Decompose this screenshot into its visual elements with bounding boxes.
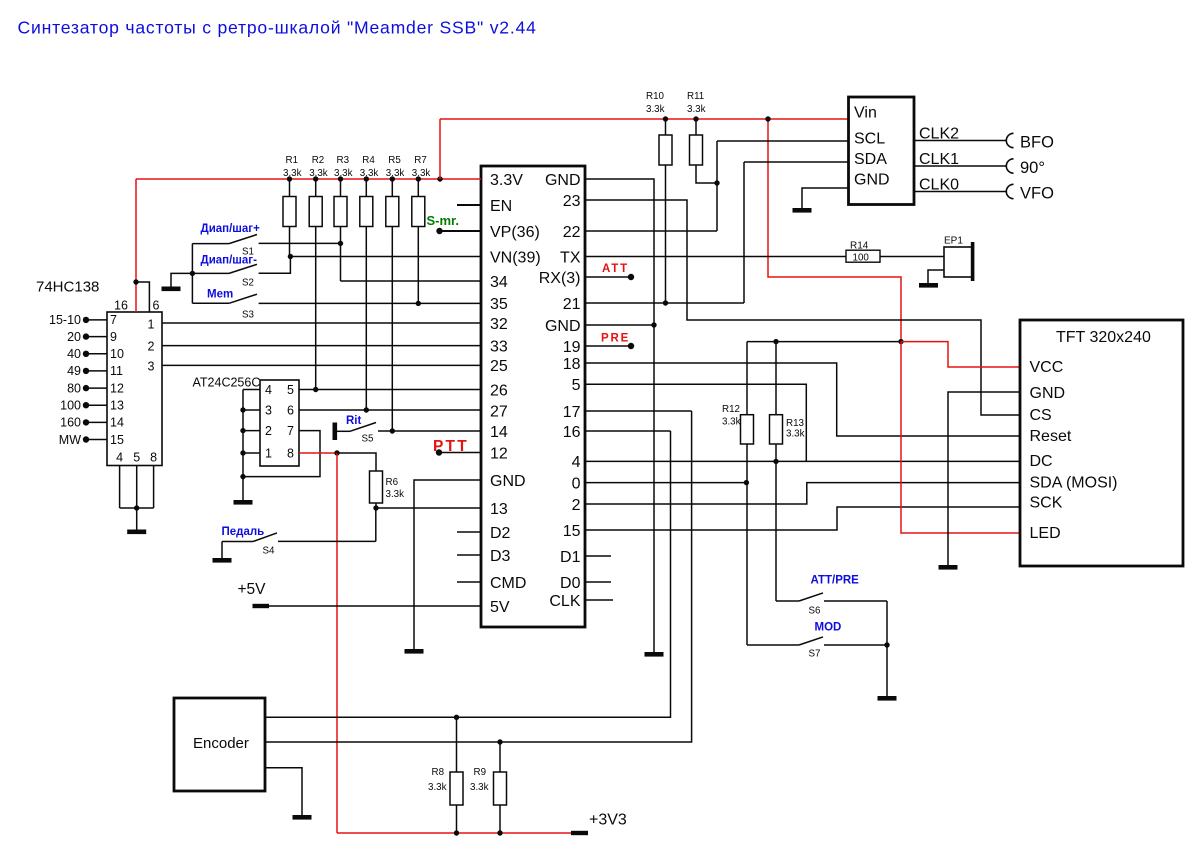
svg-text:1: 1 (265, 446, 272, 460)
svg-text:12: 12 (110, 381, 124, 395)
svg-text:GND: GND (490, 473, 526, 490)
wire R3 lead down through S1 node to 34 row (340, 227, 342, 282)
svg-text:SCK: SCK (1030, 495, 1063, 512)
wire D0 stub (585, 581, 611, 583)
svg-text:4: 4 (265, 383, 272, 397)
wire 74HC138 pin3 to U1 pin25 (162, 364, 481, 366)
wire CLK stub (585, 599, 613, 601)
svg-text:S6: S6 (809, 606, 822, 617)
wire red 3.3V horizontal to U1 (136, 178, 481, 180)
svg-text:2: 2 (265, 424, 272, 438)
svg-text:21: 21 (563, 296, 581, 313)
svg-text:18: 18 (563, 356, 581, 373)
svg-text:90°: 90° (1020, 159, 1045, 177)
svg-text:CLK2: CLK2 (919, 126, 959, 143)
svg-text:80: 80 (67, 381, 81, 395)
node pin6 row R4 junction (364, 407, 369, 412)
wire D3 stub (457, 554, 481, 556)
wire red to TFT VCC (901, 342, 1020, 367)
svg-text:8: 8 (287, 446, 294, 460)
svg-text:R5: R5 (388, 155, 401, 166)
svg-text:Reset: Reset (1030, 428, 1072, 445)
svg-text:R11: R11 (687, 91, 704, 102)
74HC138 bottom pins wires to ground (119, 466, 121, 509)
node red junction eeprom pin8 (334, 450, 339, 455)
svg-text:R3: R3 (337, 155, 350, 166)
svg-text:CLK1: CLK1 (919, 151, 959, 168)
svg-text:3.3k: 3.3k (334, 168, 353, 179)
node R8 bottom junction (454, 830, 459, 835)
svg-text:14: 14 (490, 424, 508, 441)
svg-text:23: 23 (563, 193, 581, 210)
wire U1 pin22 SCL net (585, 230, 717, 232)
node S1 to R3 junction (338, 241, 343, 246)
node 74HC138 gnd junction (134, 505, 139, 510)
wire eeprom pin6 row to U1 pin27 (299, 409, 481, 411)
svg-text:CS: CS (1030, 407, 1052, 424)
svg-text:2: 2 (148, 339, 155, 353)
svg-text:3: 3 (148, 359, 155, 373)
node GND net junction (651, 322, 656, 327)
wire U1 pin0 row to S7 net (585, 482, 746, 484)
svg-text:ATT/PRE: ATT/PRE (811, 575, 860, 587)
wire CMD stub (457, 581, 481, 583)
wire +5V to U1 5V pin (269, 605, 481, 607)
svg-text:S-mr.: S-mr. (427, 213, 460, 228)
svg-text:33: 33 (490, 338, 508, 355)
ground under AT24C256C (234, 500, 253, 505)
svg-text:22: 22 (563, 224, 581, 241)
svg-text:TFT 320x240: TFT 320x240 (1056, 329, 1151, 346)
node SCL R11 junction (714, 180, 719, 185)
svg-text:D1: D1 (560, 549, 581, 566)
svg-text:GND: GND (545, 318, 581, 335)
svg-text:3: 3 (265, 403, 272, 417)
svg-text:8: 8 (150, 451, 157, 465)
svg-text:RX(3): RX(3) (539, 270, 581, 287)
IC U2 74HC138 box (107, 312, 162, 466)
wire R1 lead down to VN row (289, 227, 291, 257)
svg-text:SDA (MOSI): SDA (MOSI) (1030, 475, 1118, 492)
svg-text:3.3k: 3.3k (386, 489, 405, 500)
wire 74HC138 to ground (136, 508, 138, 530)
wire D1 stub (585, 555, 611, 557)
node eeprom pin1 junction (240, 450, 245, 455)
wire U1 pin15 to TFT SCK (585, 507, 1020, 530)
svg-text:3.3k: 3.3k (687, 104, 706, 115)
svg-text:+3V3: +3V3 (589, 812, 627, 829)
wire red vertical to 74HC138 pin16 (135, 179, 137, 312)
wire eeprom pin8 node to R6 (337, 453, 376, 471)
svg-text:R9: R9 (474, 767, 487, 778)
wires AT24C256C left pins to ground rail (243, 389, 260, 391)
ground below U1 left (405, 649, 424, 654)
svg-text:3.3k: 3.3k (646, 104, 665, 115)
svg-text:D0: D0 (560, 575, 581, 592)
svg-text:MW: MW (59, 433, 81, 447)
svg-text:EN: EN (490, 198, 512, 215)
wire U1 pin23 to TFT CS (585, 200, 1020, 415)
svg-text:GND: GND (854, 172, 890, 189)
ground for S6/S7 (878, 696, 897, 701)
ground for encoder (293, 815, 312, 820)
wire EP1 to ground (928, 270, 944, 283)
svg-text:19: 19 (563, 339, 581, 356)
wire VN(39) row to U1 (290, 256, 481, 258)
node R9 bottom junction (497, 830, 502, 835)
svg-text:S4: S4 (263, 546, 276, 557)
svg-text:Rit: Rit (346, 415, 362, 427)
svg-text:D3: D3 (490, 548, 511, 565)
node S3 row to R7 junction (416, 301, 421, 306)
Encoder box (174, 698, 265, 791)
node pin0 row R12/S7 junction (744, 480, 749, 485)
wire encoder common to ground (265, 768, 302, 815)
wire S6 down to S7 node (886, 601, 888, 645)
svg-text:26: 26 (490, 382, 508, 399)
ground under 74HC138 (127, 530, 146, 535)
wire CLK1 to 90 (914, 165, 1007, 167)
svg-text:R13: R13 (786, 418, 805, 429)
wire U1 pin13 row (376, 507, 481, 509)
svg-text:5: 5 (572, 377, 581, 394)
svg-text:5V: 5V (490, 599, 510, 616)
wire U4 GND to ground (802, 188, 849, 208)
ground for EP1 (919, 283, 938, 288)
svg-text:15: 15 (110, 433, 124, 447)
ground for S4 (213, 558, 232, 563)
svg-text:S7: S7 (809, 649, 821, 660)
wire R14 to EP1 (880, 256, 944, 258)
svg-text:GND: GND (1030, 385, 1066, 402)
svg-text:16: 16 (563, 424, 581, 441)
svg-text:R10: R10 (646, 91, 665, 102)
wire R5 lead down to S5 row (391, 227, 393, 432)
node red junction R10 (663, 116, 668, 121)
svg-text:4: 4 (116, 451, 123, 465)
wire R2 lead down to eeprom pin5 row (315, 227, 317, 390)
svg-text:Диап/шаг-: Диап/шаг- (201, 255, 258, 267)
svg-text:GND: GND (545, 172, 581, 189)
svg-text:Педаль: Педаль (222, 526, 265, 538)
svg-text:CLK0: CLK0 (919, 177, 959, 194)
node red 3V3 junction (898, 339, 903, 344)
svg-text:5: 5 (287, 383, 294, 397)
svg-text:32: 32 (490, 316, 508, 333)
wire red vertical 3V3 rail (336, 453, 338, 833)
svg-text:40: 40 (67, 347, 81, 361)
svg-text:S2: S2 (242, 278, 254, 289)
wire switch common vertical (191, 244, 193, 304)
wire 74HC138 pin1 to U1 pin32 (162, 322, 481, 324)
svg-text:R12: R12 (722, 404, 740, 415)
svg-text:3.3k: 3.3k (283, 168, 302, 179)
node eeprom pin2 junction (240, 428, 245, 433)
wire R4 lead down to eeprom pin6 row (365, 227, 367, 411)
wire U1 pin21 SDA net (585, 302, 744, 304)
ground below GND net (645, 652, 664, 657)
node S6/S7 common junction (884, 642, 889, 647)
wire S7 node to ground (886, 645, 888, 696)
svg-text:LED: LED (1030, 525, 1061, 542)
svg-text:13: 13 (110, 399, 124, 413)
svg-text:SCL: SCL (854, 131, 885, 148)
wire U1 pin5 jog to DC row (585, 384, 806, 461)
svg-text:160: 160 (60, 416, 81, 430)
+3V3 supply terminal (571, 831, 588, 835)
wire U1 GND right net (585, 179, 654, 652)
svg-text:R1: R1 (286, 155, 299, 166)
svg-text:Диап/шаг+: Диап/шаг+ (201, 223, 261, 235)
IC U3 AT24C256C box (260, 380, 299, 466)
wire R12/R13 tops to red 3V3 (747, 341, 901, 343)
node switch common junction (190, 271, 195, 276)
svg-text:S5: S5 (362, 434, 375, 445)
svg-text:3.3k: 3.3k (786, 429, 805, 440)
svg-text:15: 15 (563, 523, 581, 540)
wire 74HC138 pin6 jog to 3.3V (136, 282, 149, 312)
svg-text:6: 6 (287, 403, 294, 417)
svg-text:16: 16 (114, 299, 128, 313)
svg-text:5: 5 (133, 451, 140, 465)
svg-text:3.3k: 3.3k (386, 168, 405, 179)
svg-text:10: 10 (110, 347, 124, 361)
connector VFO (1006, 184, 1013, 198)
svg-text:ATT: ATT (602, 263, 629, 275)
node S5 row R5 junction (390, 428, 395, 433)
wire U1 TX to R14 (585, 256, 846, 258)
node red 3.3V corner junction (437, 176, 442, 181)
wire red down right side (768, 119, 901, 342)
wire 74HC138 pin2 to U1 pin33 (162, 345, 481, 347)
svg-text:Синтезатор частоты с ретро-шка: Синтезатор частоты с ретро-шкалой "Meamd… (18, 18, 537, 38)
svg-text:EP1: EP1 (944, 236, 963, 247)
svg-text:3.3k: 3.3k (428, 782, 447, 793)
node R13 top junction (773, 339, 778, 344)
node S2 to R1 junction on VN row (288, 254, 293, 259)
svg-text:100: 100 (853, 253, 870, 264)
svg-text:TX: TX (560, 249, 581, 266)
node R9 top junction (497, 739, 502, 744)
wire EN stub (457, 204, 481, 206)
svg-text:VFO: VFO (1020, 185, 1054, 203)
svg-text:0: 0 (572, 475, 581, 492)
wire S4 to ground (221, 542, 223, 559)
display TFT 320x240 box (1020, 320, 1183, 566)
wire eeprom pin7 wrap-around (243, 431, 320, 477)
svg-text:Mem: Mem (207, 289, 233, 301)
connector BFO (1006, 133, 1013, 147)
wire red bottom rail to +3V3 (337, 832, 580, 834)
wire U1 pin16 row (585, 430, 671, 432)
svg-text:VP(36): VP(36) (490, 224, 540, 241)
svg-text:R7: R7 (414, 155, 427, 166)
svg-text:1: 1 (148, 317, 155, 331)
wire CLK2 to BFO (914, 140, 1007, 142)
svg-text:100: 100 (60, 399, 81, 413)
resistor R6 3.3k (370, 471, 383, 503)
wire U1 pin17 row (585, 410, 692, 412)
svg-text:VN(39): VN(39) (490, 249, 541, 266)
svg-text:27: 27 (490, 404, 508, 421)
ground for U4 (793, 208, 812, 213)
svg-text:12: 12 (490, 445, 508, 462)
module U4 Vin box (849, 97, 915, 205)
svg-text:74HC138: 74HC138 (36, 279, 99, 296)
node red junction R11 (693, 116, 698, 121)
wire switch common to ground (171, 273, 192, 286)
svg-text:3.3k: 3.3k (360, 168, 379, 179)
svg-text:13: 13 (490, 501, 508, 518)
wire red top horizontal to Vin (440, 118, 849, 120)
svg-text:SDA: SDA (854, 151, 887, 168)
svg-text:CMD: CMD (490, 575, 526, 592)
wire 34 row from R3 to U1 (341, 280, 482, 282)
wire U1 GND left to ground (414, 480, 481, 649)
svg-text:AT24C256C: AT24C256C (193, 376, 261, 390)
svg-text:3.3V: 3.3V (490, 172, 523, 189)
wire TFT GND to ground (948, 392, 1020, 565)
svg-text:R6: R6 (386, 477, 399, 488)
node SDA R10 junction (663, 300, 668, 305)
svg-text:2: 2 (572, 497, 581, 514)
wire R7 lead down to 35 row (417, 227, 419, 304)
svg-text:17: 17 (563, 404, 581, 421)
wire U1 pin18 to TFT Reset (585, 363, 1020, 436)
svg-text:R8: R8 (432, 767, 445, 778)
wire U1 GND2 row (585, 324, 654, 326)
svg-text:PRE: PRE (601, 333, 630, 345)
svg-text:6: 6 (153, 299, 160, 313)
svg-text:S3: S3 (242, 310, 255, 321)
svg-text:7: 7 (110, 313, 117, 327)
wire red vertical riser (439, 119, 441, 179)
svg-text:3.3k: 3.3k (309, 168, 328, 179)
svg-text:BFO: BFO (1020, 134, 1054, 152)
svg-text:D2: D2 (490, 525, 511, 542)
svg-text:15-10: 15-10 (49, 313, 81, 327)
wire red to TFT LED (901, 342, 1020, 533)
svg-text:VCC: VCC (1030, 359, 1064, 376)
svg-text:3.3k: 3.3k (722, 417, 741, 428)
svg-text:CLK: CLK (549, 593, 580, 610)
svg-text:49: 49 (67, 364, 81, 378)
svg-text:9: 9 (110, 330, 117, 344)
node eeprom pin3 junction (240, 407, 245, 412)
svg-text:R4: R4 (362, 155, 375, 166)
svg-text:35: 35 (490, 296, 508, 313)
svg-text:R2: R2 (312, 155, 325, 166)
wire U1 pin4 row to TFT DC (585, 460, 1020, 462)
wire encoder A to U1 pin16 net (265, 431, 671, 717)
svg-text:11: 11 (110, 364, 123, 378)
node red junction riser (765, 116, 770, 121)
ground for TFT (939, 565, 958, 570)
wire S4 up to R6 node (375, 508, 377, 541)
wire encoder B to U1 pin17 net (265, 411, 692, 742)
node red junction at 74HC138 branch (133, 279, 138, 284)
node eeprom pin7 wrap junction (240, 474, 245, 479)
node pin4 row R13/S6 junction (773, 459, 778, 464)
svg-text:DC: DC (1030, 453, 1053, 470)
wire eeprom pin5 row to U1 pin26 (299, 389, 481, 391)
wire CLK0 to VFO (914, 191, 1007, 193)
wire U1 pin2 to TFT SDA (585, 483, 1020, 504)
svg-text:20: 20 (67, 330, 81, 344)
svg-text:34: 34 (490, 274, 508, 291)
svg-text:4: 4 (572, 454, 581, 471)
node R6 bottom junction on pin13 row (373, 505, 378, 510)
svg-text:Vin: Vin (854, 105, 877, 122)
wire eeprom pin8 red to 3V3 riser (299, 452, 337, 454)
node pin5 row R2 junction (313, 387, 318, 392)
svg-text:MOD: MOD (815, 622, 842, 634)
svg-text:25: 25 (490, 358, 508, 375)
node R8 top junction (454, 715, 459, 720)
svg-text:7: 7 (287, 424, 294, 438)
svg-text:+5V: +5V (238, 581, 267, 598)
svg-text:14: 14 (110, 416, 124, 430)
svg-text:Encoder: Encoder (193, 735, 249, 752)
svg-text:3.3k: 3.3k (412, 168, 431, 179)
ground for S1-S3 (162, 287, 181, 292)
MCU U1 box ESP32 (481, 166, 585, 627)
wire D2 stub (457, 531, 481, 533)
connector 90° (1006, 159, 1013, 173)
svg-text:3.3k: 3.3k (470, 782, 489, 793)
